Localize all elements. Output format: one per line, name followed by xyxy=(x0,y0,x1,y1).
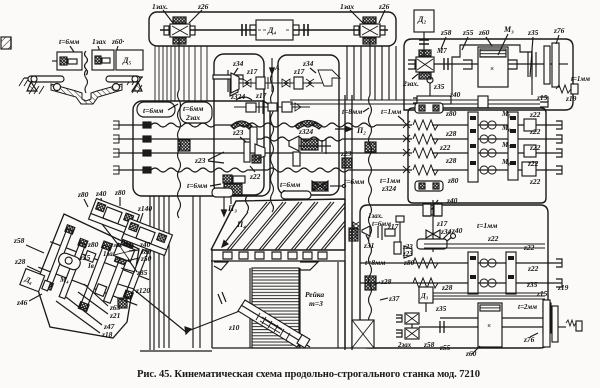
worm 1зах crossfeed xyxy=(112,239,137,267)
label z58 tilt xyxy=(13,236,44,253)
bed notch right xyxy=(300,262,318,270)
gear bar 5 xyxy=(125,249,149,298)
label z10 xyxy=(228,323,240,332)
table rib 4 xyxy=(275,202,318,250)
brake discs right xyxy=(528,43,568,87)
shaft IV feed xyxy=(113,166,412,174)
right main drive housing xyxy=(404,39,573,110)
clutch box z80 bottom xyxy=(415,181,443,191)
svg-text:1зах: 1зах xyxy=(110,242,123,249)
rack z10 xyxy=(238,300,310,348)
swivel gearbox lower unit xyxy=(122,218,173,255)
svg-text:2зах: 2зах xyxy=(185,113,200,122)
svg-text:z22: z22 xyxy=(527,159,539,168)
label z28 tilt xyxy=(14,257,40,272)
spring loaded pin right xyxy=(556,84,578,94)
gear column B xyxy=(508,112,518,180)
bar end plates xyxy=(65,225,75,234)
table rib 3 xyxy=(259,202,302,250)
svg-text:z58: z58 xyxy=(423,340,435,349)
motor Д5 xyxy=(116,50,143,70)
svg-text:z40: z40 xyxy=(95,189,107,198)
label z34 left xyxy=(232,59,244,74)
shaft A xyxy=(50,242,149,280)
svg-text:z40: z40 xyxy=(446,196,458,205)
arrow A section mark xyxy=(270,58,280,74)
svg-text:z28: z28 xyxy=(445,156,457,165)
label z140 xyxy=(137,204,152,222)
label z23 pair xyxy=(402,243,413,258)
clutch box z80 top xyxy=(415,103,443,113)
shaft III feed xyxy=(113,149,412,157)
svg-text:z80: z80 xyxy=(445,109,457,118)
svg-text:z19: z19 xyxy=(557,283,569,292)
vertical table screw t=8мм (wavy, long) xyxy=(369,37,372,345)
arrow П4 xyxy=(222,212,248,247)
svg-text:А: А xyxy=(274,64,280,72)
clutch block M3 xyxy=(463,47,517,87)
gear column A xyxy=(468,112,478,182)
svg-text:М₆: М₆ xyxy=(501,124,511,132)
svg-text:z34: z34 xyxy=(232,59,244,68)
svg-text:z22: z22 xyxy=(529,143,541,152)
label z46 tilt xyxy=(16,294,42,307)
worm block on screw left xyxy=(178,140,190,151)
svg-text:П₄: П₄ xyxy=(236,220,246,229)
svg-text:z22: z22 xyxy=(527,264,539,273)
label z40 handle xyxy=(449,90,461,99)
leadscrew t=2мм xyxy=(440,303,551,333)
svg-text:2зах: 2зах xyxy=(397,341,412,349)
label z19 xyxy=(565,94,577,103)
svg-text:t=2мм: t=2мм xyxy=(518,303,537,311)
comb lines left xyxy=(155,46,207,101)
svg-text:z17: z17 xyxy=(293,67,305,76)
svg-text:z35: z35 xyxy=(526,280,538,289)
label 1зах left xyxy=(152,2,173,23)
table drive shaft xyxy=(419,321,556,333)
svg-text:t=6мм: t=6мм xyxy=(187,181,207,190)
connector box below feed box left xyxy=(212,188,233,197)
worm block on table screw xyxy=(365,142,376,152)
end brackets bottom shafts xyxy=(556,259,562,287)
bed notch left xyxy=(214,262,228,270)
reverse gear shaft z34 z17 xyxy=(230,70,340,93)
label t=6мм 2зах xyxy=(180,102,212,123)
bottom right panel frame xyxy=(360,205,548,348)
svg-text:z60·: z60· xyxy=(111,37,124,46)
label t=6мм wall xyxy=(344,177,364,186)
gear column C xyxy=(468,252,478,294)
crossfeed box outline xyxy=(36,214,139,338)
labels z80 z40 z80 above tilted unit xyxy=(77,188,126,207)
bull wheel z76 xyxy=(543,300,582,347)
bed walls xyxy=(212,250,352,348)
label z17 z34 mid xyxy=(436,219,452,236)
bundle verticals from feed box xyxy=(150,196,169,350)
table rib 6 xyxy=(306,203,345,250)
cone gears z324/z17 second row xyxy=(234,97,310,114)
gearbox housing steps xyxy=(452,45,532,95)
spring shaft II xyxy=(413,134,556,144)
feed screw 2зах vertical wavy (A line) xyxy=(271,74,274,212)
svg-text:z80: z80 xyxy=(447,176,459,185)
label z40 bent arrow xyxy=(438,226,463,239)
swivel gearbox upper unit xyxy=(89,198,140,235)
shaft I feed xyxy=(113,121,412,129)
svg-text:М₄: М₄ xyxy=(59,276,69,284)
label z23 lower with leaders xyxy=(194,152,224,165)
svg-text:П₂: П₂ xyxy=(356,126,366,135)
rocker lever right xyxy=(106,76,142,91)
labels z80 z28 z22 left xyxy=(439,109,459,185)
cross rails t=1мм xyxy=(290,100,540,104)
svg-text:z46: z46 xyxy=(16,298,28,307)
selector shaft vertical xyxy=(423,200,442,252)
wavy screw between boxes xyxy=(85,51,88,75)
labels right housing top xyxy=(440,28,452,49)
bed cross-braced pedestal xyxy=(352,320,374,348)
top drive housing frame xyxy=(149,12,396,46)
rack drive shaft with coupling xyxy=(132,288,250,334)
bevel z23 wall left xyxy=(340,149,352,168)
worm gear z26 left xyxy=(164,17,195,44)
bed inner walls xyxy=(250,262,338,348)
handle bar t=1мм xyxy=(417,221,545,249)
pendulum saddle casting xyxy=(51,70,122,104)
gear bar 1 xyxy=(45,229,72,287)
ground support left xyxy=(19,78,47,94)
spring shaft III xyxy=(413,148,556,158)
spring shaft I xyxy=(413,120,556,130)
electromagnet labels M5-M8 xyxy=(501,110,511,166)
svg-text:z28: z28 xyxy=(445,129,457,138)
svg-text:z22: z22 xyxy=(529,177,541,186)
bundle verticals right pair xyxy=(193,196,200,348)
svg-text:z120: z120 xyxy=(135,286,150,295)
cone gear pair right of z23 xyxy=(289,136,331,166)
svg-text:m=3: m=3 xyxy=(309,299,323,308)
sector gear z324 left on shaft I xyxy=(231,121,252,129)
label t=8мм xyxy=(342,107,369,116)
shaft B xyxy=(38,267,137,305)
column panel frame xyxy=(408,108,546,203)
svg-text:z37: z37 xyxy=(388,294,400,303)
label z31 xyxy=(363,235,374,250)
svg-text:z31: z31 xyxy=(363,241,374,250)
dark bevel hub on screw xyxy=(349,228,358,241)
svg-text:М₇: М₇ xyxy=(501,141,511,149)
svg-text:z324: z324 xyxy=(381,184,396,193)
sector gear z324 right on shaft I xyxy=(295,121,322,137)
feed box frame B2 xyxy=(214,54,264,195)
svg-text:z22: z22 xyxy=(249,172,261,181)
valve symbol on panel left edge xyxy=(353,222,359,238)
labels z22 right column xyxy=(527,110,541,186)
clutch pairs bottom xyxy=(480,259,496,287)
feed box frame B xyxy=(278,55,339,195)
label z35 handle xyxy=(433,82,445,91)
motor Д3 xyxy=(419,287,447,313)
vertical feed screw t=6мм left (wavy) xyxy=(178,90,181,218)
svg-text:z35: z35 xyxy=(433,82,445,91)
labels z22 bottom cluster xyxy=(441,234,569,298)
svg-text:z55: z55 xyxy=(79,253,91,262)
label z28 z37 bottom left xyxy=(374,277,400,303)
shaft II feed xyxy=(113,135,412,143)
svg-text:Д₂: Д₂ xyxy=(417,15,426,24)
label t=6мм pendulum drive xyxy=(59,37,124,52)
rocker lever left xyxy=(27,76,64,91)
label t=1мм z324 xyxy=(380,176,400,193)
svg-text:z10: z10 xyxy=(228,323,240,332)
shaft end brackets right xyxy=(556,121,562,174)
table rib 2 xyxy=(243,202,286,250)
worm unit lower 1 xyxy=(396,313,419,324)
fan gear z34 inner xyxy=(213,70,243,96)
gear bar 2 xyxy=(59,242,85,298)
svg-text:t=6мм: t=6мм xyxy=(344,177,364,186)
output coupling dark xyxy=(118,298,127,308)
ground support right xyxy=(108,77,143,93)
bevel pair bottom t=6мм xyxy=(223,175,245,204)
svg-text:Д₄: Д₄ xyxy=(267,26,276,35)
svg-text:М₃: М₃ xyxy=(503,25,514,34)
wavy drop to bed xyxy=(246,196,249,212)
cross shaft xyxy=(160,29,388,31)
svg-text:М₈: М₈ xyxy=(501,158,511,166)
svg-text:t=8мм: t=8мм xyxy=(342,107,362,116)
svg-text:z324: z324 xyxy=(230,92,245,101)
svg-text:Iв: Iв xyxy=(87,262,94,270)
svg-text:z76: z76 xyxy=(553,26,565,35)
labels right side tilt xyxy=(118,240,152,295)
svg-text:z18: z18 xyxy=(101,330,113,339)
svg-text:z58: z58 xyxy=(13,236,25,245)
coupling right of motor xyxy=(304,24,308,36)
svg-text:z26: z26 xyxy=(378,2,390,11)
table rib 5 xyxy=(291,202,334,250)
svg-text:z80: z80 xyxy=(87,240,99,249)
feed box frame A xyxy=(133,101,270,196)
gear bar 4 xyxy=(104,247,131,304)
svg-text:z35: z35 xyxy=(435,304,447,313)
svg-text:1зах: 1зах xyxy=(92,37,106,46)
bevel pair bottom screw 2зах xyxy=(280,180,346,197)
worm gear z26 right xyxy=(354,17,385,44)
svg-text:z50: z50 xyxy=(140,254,152,263)
svg-text:t=1мм: t=1мм xyxy=(477,221,497,230)
svg-text:z55: z55 xyxy=(439,343,451,352)
connector box below feed box right xyxy=(281,191,311,199)
svg-text:Д₅: Д₅ xyxy=(122,56,131,65)
feed box frame C right border xyxy=(345,95,352,350)
svg-text:t=1мм: t=1мм xyxy=(381,107,401,116)
worm unit lower 2 xyxy=(396,324,419,339)
svg-text:z28: z28 xyxy=(441,283,453,292)
svg-text:Рис. 45. Кинематическая схема: Рис. 45. Кинематическая схема продольно-… xyxy=(137,369,480,380)
label z15 xyxy=(536,93,548,102)
motor Д4 xyxy=(250,20,299,40)
svg-text:×: × xyxy=(490,65,494,73)
motor Д6 xyxy=(20,269,52,295)
svg-text:z21: z21 xyxy=(109,311,120,320)
rail right bearing xyxy=(478,96,548,108)
label t=6мм shaft screw xyxy=(137,102,178,117)
label z55 М4 Iv 1зах xyxy=(59,240,117,284)
gear column D xyxy=(506,252,516,294)
svg-text:2зах.: 2зах. xyxy=(402,79,419,88)
svg-text:z80: z80 xyxy=(114,188,126,197)
svg-text:1зах.: 1зах. xyxy=(152,2,168,11)
svg-text:1зах: 1зах xyxy=(340,2,354,11)
label z26 left xyxy=(189,2,209,23)
label t=6мм bottom xyxy=(187,181,221,190)
handle z40 xyxy=(413,77,451,104)
svg-text:z23: z23 xyxy=(194,156,206,165)
svg-text:z76: z76 xyxy=(523,335,535,344)
svg-text:z35: z35 xyxy=(527,28,539,37)
vertical selector gears z23 xyxy=(394,216,412,258)
svg-text:z23: z23 xyxy=(402,250,413,258)
bed ways hatched block xyxy=(252,268,299,348)
label z40 knob bottom xyxy=(429,196,458,215)
main drive shaft xyxy=(434,58,560,70)
table top outline xyxy=(211,199,345,250)
worm block lower screw xyxy=(365,276,376,290)
clutch pairs between columns xyxy=(480,121,496,174)
svg-text:z58: z58 xyxy=(440,28,452,37)
spring shaft IV xyxy=(413,165,556,175)
table rails xyxy=(430,293,545,299)
svg-text:z324: z324 xyxy=(298,127,313,136)
svg-text:z26: z26 xyxy=(197,2,209,11)
gear cluster z23 bars xyxy=(244,127,265,163)
label 1зах t=6мм bottom screw xyxy=(368,212,391,228)
labels bottom tilt xyxy=(56,284,121,339)
gear blocks right of column B xyxy=(522,119,536,176)
label Рейка m=3 xyxy=(305,290,324,308)
label z23 upper xyxy=(232,128,246,142)
svg-text:z23: z23 xyxy=(340,149,352,158)
svg-text:М₅: М₅ xyxy=(501,110,511,118)
ground hatch top far-left xyxy=(1,37,11,49)
label z17 left pair xyxy=(246,67,258,76)
label 2зах right housing xyxy=(402,74,419,88)
svg-text:t=6мм: t=6мм xyxy=(183,104,203,113)
label t=8мм lower xyxy=(365,258,385,267)
pendulum gearbox middle box xyxy=(92,50,114,70)
svg-text:z22: z22 xyxy=(439,143,451,152)
label z34 right xyxy=(302,59,316,73)
svg-text:z28: z28 xyxy=(14,257,26,266)
svg-text:t=6мм: t=6мм xyxy=(143,106,163,115)
svg-text:Рейка: Рейка xyxy=(305,290,324,299)
svg-text:z85: z85 xyxy=(136,268,148,277)
label z22 mid xyxy=(249,166,261,181)
coupling left of motor xyxy=(242,24,246,36)
svg-text:z28: z28 xyxy=(380,277,392,286)
label z17 second row xyxy=(255,91,267,100)
motor Д2 xyxy=(414,10,434,55)
jackshaft to crossfeed xyxy=(102,224,137,272)
label z17 xyxy=(387,222,399,231)
table drive block xyxy=(478,303,502,347)
svg-text:z17: z17 xyxy=(387,222,399,231)
svg-text:z22: z22 xyxy=(529,110,541,119)
svg-text:z22: z22 xyxy=(529,127,541,136)
labels bottom of right panel xyxy=(397,333,538,358)
svg-text:z22: z22 xyxy=(487,234,499,243)
pendulum gearbox left box xyxy=(52,52,82,70)
label 1зах crossfeed xyxy=(110,242,123,249)
arrow П3 xyxy=(222,194,238,216)
crossfeed inner shafts and gears xyxy=(30,217,159,329)
svg-text:t=6мм: t=6мм xyxy=(59,37,79,46)
table feet row xyxy=(211,252,345,261)
feed shaft VI xyxy=(360,278,556,288)
worm unit M7 xyxy=(408,47,447,79)
svg-text:z17: z17 xyxy=(246,67,258,76)
table rib 1 xyxy=(227,202,270,250)
svg-text:z140: z140 xyxy=(137,204,152,213)
comb lines right xyxy=(347,46,396,100)
vertical shaft from left worm xyxy=(178,37,180,90)
gear bar 3 xyxy=(80,245,110,309)
svg-text:z80: z80 xyxy=(77,190,89,199)
label t=1мм top right feed xyxy=(381,107,404,121)
label z17 right pair xyxy=(293,67,305,76)
svg-text:z19: z19 xyxy=(565,94,577,103)
svg-text:П₃: П₃ xyxy=(227,204,237,213)
label 1зах right xyxy=(340,2,363,23)
base line under bundle xyxy=(140,350,212,352)
clutch M4 oval xyxy=(57,251,82,271)
label z324 top xyxy=(230,92,245,101)
svg-text:z17: z17 xyxy=(255,91,267,100)
bevel gear on table screw xyxy=(362,224,395,240)
svg-text:z60: z60 xyxy=(478,28,490,37)
svg-text:z40: z40 xyxy=(449,90,461,99)
svg-text:z55: z55 xyxy=(462,28,474,37)
svg-text:×: × xyxy=(487,322,491,330)
small couplings xyxy=(84,251,96,263)
svg-text:1зах.: 1зах. xyxy=(368,212,383,220)
label z80 xyxy=(403,258,415,267)
label П2 arrow xyxy=(335,126,366,135)
svg-text:z15: z15 xyxy=(536,93,548,102)
bearing X marks wall xyxy=(403,121,410,173)
svg-text:t=1мм: t=1мм xyxy=(571,75,590,83)
svg-text:z22: z22 xyxy=(523,243,535,252)
label z26 right xyxy=(378,2,390,23)
svg-text:Д₃: Д₃ xyxy=(420,292,429,300)
table rib 7 xyxy=(321,221,345,250)
feed shaft V xyxy=(360,258,556,268)
label t=1мм pin xyxy=(571,75,590,83)
